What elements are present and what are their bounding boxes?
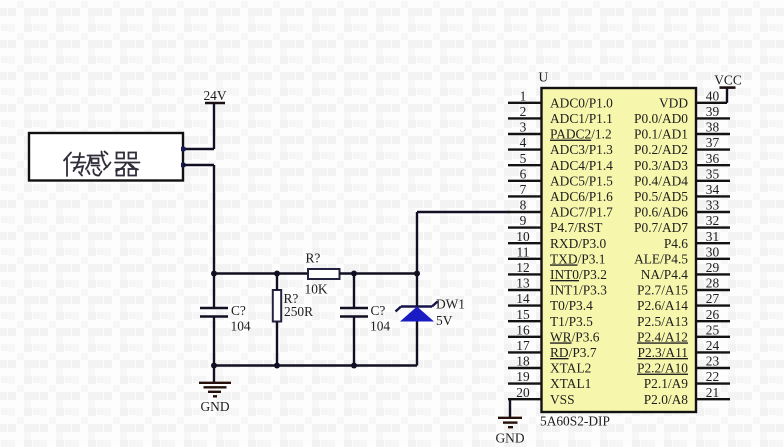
capacitor C2 bottom lead [353, 317, 355, 366]
sensor pin dot lower [181, 163, 185, 167]
pin 33 stub [696, 211, 730, 213]
wire vertical sensor to node row [213, 165, 215, 274]
svg-text:INT1/P3.3: INT1/P3.3 [550, 283, 607, 298]
svg-text:17: 17 [516, 338, 530, 353]
svg-text:30: 30 [706, 244, 720, 259]
pin 19 stub [508, 382, 542, 384]
svg-text:P0.7/AD7: P0.7/AD7 [634, 220, 688, 235]
svg-text:10K: 10K [305, 282, 328, 297]
svg-text:16: 16 [516, 322, 530, 337]
svg-text:24: 24 [706, 338, 720, 353]
svg-text:C?: C? [231, 303, 246, 318]
pin 5 stub [508, 164, 542, 166]
node junction dot E (C1 bottom) [211, 363, 217, 369]
ground symbol left [199, 383, 231, 397]
wire 24V vertical drop [213, 103, 215, 149]
wire VSS to ground [509, 399, 511, 417]
pin 36 stub [696, 164, 730, 166]
svg-text:40: 40 [706, 88, 720, 103]
pin 39 stub [696, 117, 730, 119]
svg-text:5A60S2-DIP: 5A60S2-DIP [540, 414, 610, 429]
wire to IC pin 8 [417, 211, 509, 213]
svg-text:ADC6/P1.6: ADC6/P1.6 [550, 189, 613, 204]
svg-text:P0.3/AD3: P0.3/AD3 [634, 158, 688, 173]
pin 9 stub [508, 226, 542, 228]
power symbol VCC bar [720, 86, 736, 89]
svg-text:T0/P3.4: T0/P3.4 [550, 298, 593, 313]
sensor text 传感器 (drawn strokes) [64, 152, 140, 177]
wire top rail right segment [340, 272, 418, 274]
svg-text:13: 13 [516, 276, 530, 291]
svg-text:P4.7/RST: P4.7/RST [550, 220, 602, 235]
svg-text:32: 32 [706, 213, 719, 228]
svg-text:5: 5 [520, 151, 527, 166]
svg-text:4: 4 [520, 135, 527, 150]
svg-text:DW1: DW1 [436, 297, 465, 312]
pin 27 stub [696, 304, 730, 306]
svg-text:28: 28 [706, 276, 720, 291]
sensor box 传感器 [29, 133, 183, 181]
svg-text:104: 104 [231, 319, 251, 334]
pin 24 stub [696, 351, 730, 353]
svg-text:20: 20 [516, 385, 530, 400]
svg-text:7: 7 [520, 182, 527, 197]
svg-text:P2.5/A13: P2.5/A13 [637, 314, 688, 329]
svg-text:1: 1 [520, 88, 527, 103]
svg-text:39: 39 [706, 104, 720, 119]
svg-text:250R: 250R [284, 304, 313, 319]
svg-text:8: 8 [520, 198, 527, 213]
pin 21 stub [696, 398, 730, 400]
svg-text:25: 25 [706, 322, 720, 337]
svg-text:P2.4/A12: P2.4/A12 [637, 329, 688, 344]
pin 6 stub [508, 180, 542, 182]
zener diode DW1 triangle [400, 307, 434, 322]
capacitor C2 plates [340, 307, 368, 309]
svg-text:P2.6/A14: P2.6/A14 [637, 298, 688, 313]
svg-text:RXD/P3.0: RXD/P3.0 [550, 236, 606, 251]
svg-text:ADC5/P1.5: ADC5/P1.5 [550, 173, 613, 188]
svg-text:38: 38 [706, 120, 720, 135]
svg-text:R?: R? [306, 251, 321, 266]
svg-text:34: 34 [706, 182, 720, 197]
zener diode DW1 cathode bar [396, 302, 438, 312]
pin 34 stub [696, 195, 730, 197]
svg-text:5V: 5V [436, 313, 453, 328]
svg-text:GND: GND [495, 431, 524, 446]
svg-text:P0.6/AD6: P0.6/AD6 [634, 205, 688, 220]
svg-text:22: 22 [706, 369, 719, 384]
svg-text:2: 2 [520, 104, 527, 119]
capacitor C1 plates [200, 307, 228, 309]
node junction dot B (R250R top) [274, 271, 280, 277]
svg-text:INT0/P3.2: INT0/P3.2 [550, 267, 607, 282]
svg-text:XTAL1: XTAL1 [550, 376, 591, 391]
svg-text:29: 29 [706, 260, 720, 275]
svg-text:PADC2/1.2: PADC2/1.2 [550, 127, 612, 142]
svg-text:10: 10 [516, 229, 530, 244]
svg-text:23: 23 [706, 354, 720, 369]
svg-text:ADC4/P1.4: ADC4/P1.4 [550, 158, 613, 173]
svg-text:P0.5/AD5: P0.5/AD5 [634, 189, 688, 204]
svg-text:19: 19 [516, 369, 530, 384]
svg-text:GND: GND [200, 399, 229, 414]
svg-text:P0.0/AD0: P0.0/AD0 [634, 111, 688, 126]
svg-text:U: U [539, 70, 549, 85]
pin 10 stub [508, 242, 542, 244]
svg-text:35: 35 [706, 166, 720, 181]
pin 22 stub [696, 382, 730, 384]
wire VCC vertical [726, 88, 728, 103]
sensor pin dot upper [181, 147, 185, 151]
wire bottom rail [214, 364, 417, 366]
svg-text:37: 37 [706, 135, 720, 150]
svg-text:33: 33 [706, 198, 720, 213]
svg-text:36: 36 [706, 151, 720, 166]
pin 32 stub [696, 226, 730, 228]
svg-text:104: 104 [370, 319, 390, 334]
wire pin8 vertical link [416, 212, 418, 307]
svg-text:P2.0/A8: P2.0/A8 [644, 392, 689, 407]
pin 35 stub [696, 180, 730, 182]
pin 7 stub [508, 195, 542, 197]
pin 37 stub [696, 148, 730, 150]
svg-text:ADC3/P1.3: ADC3/P1.3 [550, 142, 613, 157]
pin 1 stub [508, 102, 542, 104]
capacitor C2 top lead [353, 274, 355, 309]
svg-text:VDD: VDD [659, 95, 688, 110]
wire sensor upper pin to 24V [183, 148, 214, 150]
svg-text:P4.6: P4.6 [664, 236, 688, 251]
svg-text:ADC0/P1.0: ADC0/P1.0 [550, 95, 613, 110]
svg-text:18: 18 [516, 354, 530, 369]
wire GND drop left [213, 366, 215, 383]
svg-text:TXD/P3.1: TXD/P3.1 [550, 251, 605, 266]
svg-text:31: 31 [706, 229, 719, 244]
svg-text:6: 6 [520, 166, 527, 181]
svg-text:RD/P3.7: RD/P3.7 [550, 345, 597, 360]
zener diode DW1 bottom lead [416, 322, 418, 366]
pin 8 stub [508, 211, 542, 213]
pin 18 stub [508, 367, 542, 369]
svg-text:T1/P3.5: T1/P3.5 [550, 314, 593, 329]
pin 26 stub [696, 320, 730, 322]
svg-text:NA/P4.4: NA/P4.4 [641, 267, 689, 282]
pin 20 stub [508, 398, 542, 400]
pin 30 stub [696, 258, 730, 260]
svg-text:VCC: VCC [714, 73, 742, 88]
svg-text:P0.1/AD1: P0.1/AD1 [634, 127, 688, 142]
svg-text:P2.3/A11: P2.3/A11 [638, 345, 688, 360]
pin 4 stub [508, 148, 542, 150]
pin 11 stub [508, 258, 542, 260]
pin 13 stub [508, 289, 542, 291]
svg-text:P0.4/AD4: P0.4/AD4 [634, 173, 688, 188]
svg-text:9: 9 [520, 213, 527, 228]
svg-text:24V: 24V [203, 88, 226, 103]
wire top rail left segment [214, 272, 308, 274]
node junction dot C (C2 top) [351, 271, 357, 277]
node junction dot A (sensor/C1) [211, 271, 217, 277]
pin 28 stub [696, 289, 730, 291]
node junction dot D (diode column) [414, 271, 420, 277]
svg-text:ADC1/P1.1: ADC1/P1.1 [550, 111, 613, 126]
svg-text:P2.2/A10: P2.2/A10 [637, 361, 688, 376]
svg-text:15: 15 [516, 307, 530, 322]
wire sensor lower pin [183, 164, 214, 166]
node junction dot F (R bottom) [274, 363, 280, 369]
svg-text:27: 27 [706, 291, 720, 306]
pin 40 stub [696, 102, 727, 104]
pin 14 stub [508, 304, 542, 306]
svg-text:26: 26 [706, 307, 720, 322]
svg-text:VSS: VSS [550, 392, 575, 407]
resistor R? 10K horizontal body [308, 269, 340, 279]
svg-text:3: 3 [520, 120, 527, 135]
pin 29 stub [696, 273, 730, 275]
pin 3 stub [508, 133, 542, 135]
capacitor C1 top lead [213, 274, 215, 309]
pin 12 stub [508, 273, 542, 275]
power symbol 24V bar [205, 102, 225, 105]
svg-text:11: 11 [517, 244, 530, 259]
svg-text:21: 21 [706, 385, 719, 400]
pin 25 stub [696, 336, 730, 338]
resistor R250R bottom lead [276, 322, 278, 366]
pin 2 stub [508, 117, 542, 119]
pin 31 stub [696, 242, 730, 244]
pin 16 stub [508, 336, 542, 338]
pin 23 stub [696, 367, 730, 369]
svg-text:ADC7/P1.7: ADC7/P1.7 [550, 205, 613, 220]
pin 17 stub [508, 351, 542, 353]
svg-text:12: 12 [516, 260, 529, 275]
svg-text:P2.7/A15: P2.7/A15 [637, 283, 688, 298]
svg-text:14: 14 [516, 291, 530, 306]
svg-text:C?: C? [371, 303, 386, 318]
resistor R? 250R vertical body [273, 290, 281, 322]
pin 38 stub [696, 133, 730, 135]
svg-text:P2.1/A9: P2.1/A9 [644, 376, 689, 391]
op IC U body 5A60S2-DIP [542, 88, 697, 412]
ground symbol at VSS [498, 418, 522, 427]
capacitor C1 bottom lead [213, 317, 215, 366]
svg-text:WR/P3.6: WR/P3.6 [550, 329, 600, 344]
svg-text:P0.2/AD2: P0.2/AD2 [634, 142, 688, 157]
pin 15 stub [508, 320, 542, 322]
svg-text:ALE/P4.5: ALE/P4.5 [634, 251, 688, 266]
resistor R250R top lead [276, 274, 278, 291]
node junction dot G (C2 bottom) [351, 363, 357, 369]
svg-text:XTAL2: XTAL2 [550, 361, 591, 376]
